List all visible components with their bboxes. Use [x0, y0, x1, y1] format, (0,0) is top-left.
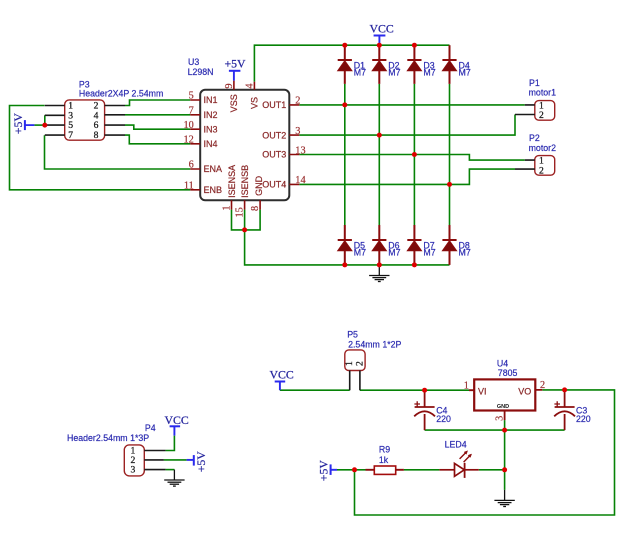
wire GND rail under capacitors	[425, 429, 565, 431]
junction dot VCC rail D1	[342, 43, 347, 48]
svg-text:VCC: VCC	[270, 368, 294, 382]
connector P3 right pin stubs	[105, 106, 125, 136]
wire D3 column	[413, 84, 415, 225]
power flag +5V at U3 VSS	[229, 71, 241, 81]
junction dot GND rail D6	[377, 262, 382, 267]
diode D2	[372, 45, 386, 84]
svg-text:220: 220	[436, 414, 451, 424]
wire P4 pin2 to +5V	[164, 459, 187, 461]
svg-text:M7: M7	[459, 248, 471, 258]
svg-text:10: 10	[184, 120, 194, 131]
diode D6	[372, 225, 386, 265]
svg-text:OUT4: OUT4	[262, 180, 286, 190]
diode D5	[338, 225, 352, 265]
power flag VCC at P5	[275, 382, 286, 391]
svg-text:+5V: +5V	[194, 451, 208, 473]
power flag VCC top	[374, 36, 386, 46]
wire VCC at P5 to U4 VI	[280, 389, 350, 391]
junction dot C4 top	[422, 388, 427, 393]
wire D1 column down through OUT rows	[344, 84, 346, 225]
svg-text:IN4: IN4	[204, 139, 218, 149]
svg-text:Header2X4P 2.54mm: Header2X4P 2.54mm	[79, 88, 163, 98]
svg-text:7: 7	[68, 130, 73, 141]
svg-text:+5V: +5V	[225, 57, 247, 71]
svg-text:ENA: ENA	[204, 164, 223, 174]
wire ISENSA down to junction	[232, 210, 246, 230]
regulator U4 7805 body	[474, 379, 535, 410]
svg-text:14: 14	[295, 175, 305, 186]
svg-text:13: 13	[295, 145, 305, 156]
U3 right pin stubs OUT1 OUT2 OUT3 OUT4	[289, 105, 299, 184]
diode D7	[407, 225, 421, 265]
svg-text:M7: M7	[423, 248, 435, 258]
connector P2 motor2 body	[535, 156, 555, 176]
diode D3	[407, 45, 421, 84]
ground at P4 pin3	[164, 470, 184, 487]
svg-text:6: 6	[189, 160, 194, 171]
power flag VCC at P4	[170, 426, 181, 435]
svg-text:3: 3	[495, 416, 506, 421]
svg-text:Header2.54mm 1*3P: Header2.54mm 1*3P	[67, 433, 149, 443]
junction dot OUT3 D3	[412, 152, 417, 157]
svg-text:2: 2	[539, 110, 544, 121]
svg-text:220: 220	[576, 414, 591, 424]
svg-text:GND: GND	[497, 404, 509, 410]
svg-text:2: 2	[540, 380, 545, 391]
wire +5V to P3 pin3	[44, 115, 46, 125]
junction dot GND rail D7	[412, 262, 417, 267]
svg-text:LED4: LED4	[445, 440, 467, 450]
wire ENB net: P3 pin1 to U3 ENB	[10, 106, 191, 190]
connector P3 Header2X4P body	[65, 100, 105, 140]
wire P3 pin6 to U3 IN3	[125, 125, 190, 129]
svg-text:IN1: IN1	[204, 95, 218, 105]
svg-text:IN2: IN2	[204, 110, 218, 120]
connector P2 pin stubs	[515, 160, 535, 169]
svg-text:U4: U4	[497, 358, 508, 368]
U4 pin stubs	[469, 390, 542, 420]
svg-text:1: 1	[222, 205, 233, 210]
svg-text:R9: R9	[379, 445, 390, 455]
diode D8	[442, 225, 456, 265]
svg-text:M7: M7	[459, 67, 471, 77]
U3 left pin stubs IN1 IN2 IN3 IN4 ENA ENB	[190, 100, 200, 190]
svg-text:GND: GND	[254, 175, 264, 196]
capacitor C4	[414, 390, 435, 430]
wire +5V flag to junction	[34, 124, 46, 126]
resistor R9	[366, 466, 404, 474]
wire junction down to bottom diode rail	[245, 230, 450, 265]
power flag +5V at R9 (rotated)	[331, 464, 337, 475]
wire P4 pin1 to VCC	[166, 436, 175, 451]
power flag +5V at P3 (rotated)	[25, 120, 35, 130]
connector P1 motor1 body	[535, 101, 555, 121]
svg-text:3: 3	[295, 126, 300, 137]
connector P5 body	[345, 350, 365, 371]
wire LED4 to GND column	[479, 469, 505, 471]
svg-text:5: 5	[189, 91, 194, 102]
wire P4 pin3 to ground	[166, 469, 175, 471]
wire D2 column	[378, 84, 380, 225]
svg-text:1k: 1k	[379, 455, 389, 465]
wire OUT3 row to P2 pin1	[299, 155, 525, 161]
junction dot OUT1 D1	[342, 102, 347, 107]
svg-text:2.54mm 1*2P: 2.54mm 1*2P	[348, 340, 401, 350]
wire VCC rail top: U3 VS up and across to D4 column	[254, 45, 449, 81]
svg-text:VCC: VCC	[165, 413, 189, 427]
LED LED4	[439, 451, 478, 478]
wire U3 GND pin down to junction	[245, 210, 261, 230]
wire U4 GND pin to rail	[504, 420, 506, 430]
svg-text:M7: M7	[388, 248, 400, 258]
svg-text:7805: 7805	[498, 368, 518, 378]
svg-text:M7: M7	[423, 67, 435, 77]
wire +5V flag to R9	[337, 469, 366, 471]
capacitor C3	[554, 390, 575, 430]
junction dot OUT4 D4	[447, 182, 452, 187]
svg-text:2: 2	[539, 165, 544, 176]
svg-text:11: 11	[184, 180, 194, 191]
svg-text:2: 2	[354, 361, 365, 366]
svg-text:VSS: VSS	[229, 94, 239, 112]
wire D4 column	[449, 84, 451, 225]
junction dot U4 GND rail	[502, 428, 507, 433]
svg-text:ISENSB: ISENSB	[240, 165, 250, 198]
ground under D6	[369, 266, 389, 282]
svg-text:15: 15	[235, 207, 246, 217]
connector P3 left pin stubs	[45, 106, 65, 136]
svg-text:OUT2: OUT2	[262, 130, 286, 140]
svg-text:1: 1	[464, 380, 469, 391]
wire ISENSB down to junction	[244, 210, 246, 230]
U3 top pin stubs VSS VS	[234, 81, 255, 90]
svg-text:3: 3	[131, 465, 136, 476]
svg-text:8: 8	[250, 206, 261, 211]
wire OUT4 row to P2 pin2	[299, 169, 515, 184]
svg-text:VI: VI	[478, 386, 487, 396]
wire P3 pin4 to U3 IN2	[125, 114, 190, 116]
junction dot OUT2 D2	[377, 133, 382, 138]
svg-text:+5V: +5V	[11, 113, 25, 135]
svg-text:motor2: motor2	[529, 143, 556, 153]
svg-text:M7: M7	[354, 67, 366, 77]
svg-text:P4: P4	[145, 423, 156, 433]
wire OUT1 row to P1 pin1	[299, 104, 525, 106]
connector P4 Header 1x3 body	[124, 445, 144, 476]
diode D1	[338, 45, 352, 84]
svg-text:P5: P5	[347, 330, 358, 340]
wire P5 pin2 to U4 VI	[360, 389, 469, 391]
junction dot C3 top	[562, 387, 567, 392]
svg-text:M7: M7	[354, 248, 366, 258]
svg-text:P2: P2	[529, 133, 540, 143]
connector P1 pin stubs	[515, 105, 535, 115]
U3 bottom pin stubs ISENSA ISENSB GND	[232, 200, 261, 209]
junction dot GND rail D5	[342, 262, 347, 267]
wire OUT2 row to P1 pin2	[299, 115, 515, 136]
ground under LED node	[494, 490, 514, 507]
connector P4 pin stubs	[144, 451, 165, 470]
svg-text:8: 8	[94, 130, 99, 141]
wire R9 to LED4	[404, 469, 440, 471]
power flag +5V at P4 pin2 (rotated)	[187, 455, 194, 466]
svg-text:IN3: IN3	[204, 124, 218, 134]
diode D4	[442, 45, 456, 84]
svg-text:OUT1: OUT1	[262, 100, 286, 110]
svg-text:7: 7	[189, 105, 194, 116]
svg-text:motor1: motor1	[529, 88, 556, 98]
svg-text:ENB: ENB	[204, 185, 223, 195]
wire ENA net: P3 pin7 to U3 ENA	[45, 135, 191, 169]
svg-text:2: 2	[295, 96, 300, 107]
svg-text:L298N: L298N	[188, 67, 214, 77]
svg-text:VS: VS	[250, 97, 260, 109]
svg-text:OUT3: OUT3	[262, 150, 286, 160]
junction dot LED GND node	[502, 467, 507, 472]
wire U4 VO to right rail, down and along bottom to +5V column	[355, 390, 615, 515]
svg-text:9: 9	[224, 83, 235, 88]
junction dot VCC rail D2	[377, 43, 382, 48]
svg-text:+5V: +5V	[317, 460, 331, 482]
svg-text:ISENSA: ISENSA	[227, 165, 237, 198]
junction dot +5V R9 node	[352, 467, 357, 472]
svg-text:12: 12	[184, 134, 194, 145]
svg-text:4: 4	[244, 83, 255, 88]
svg-text:M7: M7	[388, 67, 400, 77]
connector P5 pin stubs	[350, 371, 360, 391]
wire P3 pin8 to U3 IN4	[125, 135, 190, 144]
svg-text:VCC: VCC	[370, 21, 394, 35]
wire P3 pin2 to U3 IN1	[125, 100, 190, 106]
junction dot P3 +5V	[42, 123, 47, 128]
op-amp U3 L298N body	[200, 90, 289, 201]
svg-text:VO: VO	[518, 386, 531, 396]
wire GND column down to LED row and ground	[504, 430, 506, 490]
junction dot ISENS node	[242, 227, 247, 232]
junction dot VCC rail D3	[412, 43, 417, 48]
svg-text:U3: U3	[188, 57, 199, 67]
